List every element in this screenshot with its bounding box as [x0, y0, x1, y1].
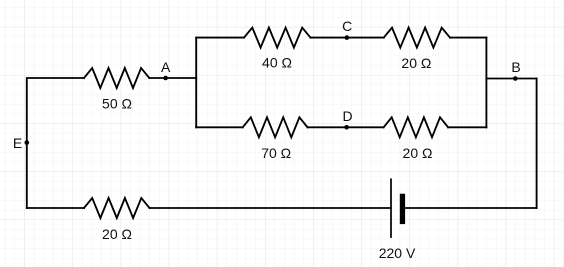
resistor 20 Ω top — [384, 28, 450, 48]
wire bottom right (battery to right column) — [405, 207, 536, 209]
wire right side vertical — [536, 79, 538, 209]
wire bottom branch middle segment (node D) — [308, 126, 384, 128]
svg-text:220 V: 220 V — [379, 245, 416, 261]
wire left branch vertical — [195, 38, 197, 128]
wire B row — [486, 78, 536, 80]
svg-text:A: A — [161, 59, 171, 75]
svg-text:20 Ω: 20 Ω — [403, 145, 433, 161]
svg-text:20 Ω: 20 Ω — [102, 226, 132, 242]
node D — [344, 125, 349, 130]
resistor 70 Ω — [243, 117, 308, 137]
node A — [163, 76, 168, 81]
svg-text:70 Ω: 70 Ω — [261, 145, 291, 161]
svg-text:C: C — [342, 18, 352, 34]
resistor 20 Ω bottom — [84, 198, 150, 218]
node B — [513, 76, 518, 81]
resistor 20 Ω lower branch — [384, 117, 449, 137]
wire right branch vertical — [485, 38, 487, 128]
resistor 50 Ω — [84, 68, 149, 88]
wire bottom left (resistor to battery) — [150, 207, 392, 209]
battery 220 V short thick plate — [400, 194, 405, 224]
svg-text:20 Ω: 20 Ω — [401, 55, 431, 71]
node C — [345, 35, 350, 40]
svg-text:D: D — [342, 108, 352, 124]
svg-text:40 Ω: 40 Ω — [262, 55, 292, 71]
node E — [25, 140, 30, 145]
wire bottom far-left segment — [27, 207, 84, 209]
svg-text:B: B — [511, 59, 520, 75]
wire top branch right segment — [450, 37, 486, 39]
svg-text:E: E — [13, 135, 22, 151]
wire left side: E column and top-left horizontal — [27, 78, 84, 208]
wire top branch left segment — [196, 37, 244, 39]
wire top branch middle segment (node C) — [311, 37, 384, 39]
wire bottom branch right segment — [448, 126, 486, 128]
svg-text:50 Ω: 50 Ω — [102, 95, 132, 111]
wire A row (resistor to branch split) — [149, 77, 196, 79]
battery 220 V long plate — [390, 178, 392, 238]
wire bottom branch left segment — [196, 126, 243, 128]
resistor 40 Ω — [244, 28, 311, 48]
